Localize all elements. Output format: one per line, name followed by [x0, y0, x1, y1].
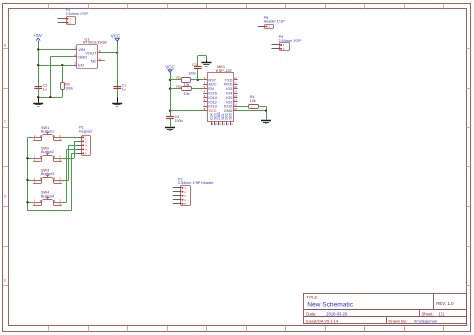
wire GND pin to rail	[238, 110, 266, 112]
junction rail/VCCpin	[169, 110, 171, 112]
svg-text:2.54mm 1*2P: 2.54mm 1*2P	[66, 12, 89, 16]
junction rail SW4	[26, 201, 28, 203]
capacitor C3 100n	[188, 56, 206, 80]
svg-text:Drawn By:: Drawn By:	[389, 318, 407, 323]
title block Date row	[306, 311, 445, 316]
svg-text:1.0: 1.0	[448, 301, 455, 306]
svg-text:timstegeman: timstegeman	[414, 318, 437, 323]
svg-text:E: E	[4, 279, 6, 283]
switch SW4 Button4	[33, 191, 62, 206]
svg-text:100n: 100n	[175, 119, 183, 123]
MK1 pin 12 SD1	[221, 113, 226, 126]
MK1 pin 18 IO0	[226, 94, 237, 100]
resistor R4 10k	[238, 95, 259, 109]
svg-text:1/1: 1/1	[439, 311, 445, 316]
junction RST/C3	[197, 79, 199, 81]
svg-text:Sheet:: Sheet:	[422, 311, 434, 316]
svg-text:Header 1*1P: Header 1*1P	[264, 20, 286, 24]
MK1 pin 22 TXD	[225, 76, 238, 82]
junction rail/R1	[169, 79, 171, 81]
svg-text:Keypad: Keypad	[79, 129, 92, 133]
power flag VCC regulator	[111, 33, 121, 43]
title block frame	[303, 294, 466, 324]
svg-text:REV:: REV:	[436, 301, 446, 306]
U1 pin 5 VOUT	[85, 49, 101, 55]
svg-text:TITLE:: TITLE:	[306, 295, 318, 300]
MK1 pin 14 SD3	[229, 113, 234, 126]
wire R2 to EN	[191, 88, 203, 90]
svg-text:NC: NC	[91, 58, 97, 63]
wire SW2 to P1 pin2	[62, 142, 78, 159]
resistor R3 100k	[61, 82, 74, 90]
border tick marks right	[466, 49, 471, 286]
svg-text:2018-03-26: 2018-03-26	[326, 311, 348, 316]
svg-text:Date:: Date:	[306, 311, 316, 316]
U1 pin 3 EN	[74, 61, 84, 67]
junction +5V/EN	[37, 64, 39, 66]
svg-text:VCC: VCC	[111, 33, 121, 38]
MK1 pin 13 SD2	[225, 113, 230, 126]
switch SW3 Button3	[33, 168, 62, 183]
svg-text:EN: EN	[78, 63, 84, 68]
svg-text:ESP-12E: ESP-12E	[216, 68, 232, 73]
svg-text:VCC: VCC	[165, 65, 175, 70]
junction gnd rail	[265, 110, 267, 112]
svg-text:R1: R1	[176, 76, 181, 80]
svg-text:2.54mm 1*5P Header: 2.54mm 1*5P Header	[178, 181, 214, 185]
connector P5 Header 1*1P	[258, 16, 286, 29]
wire VIN row	[38, 49, 73, 51]
wire SW4 to P1 pin4	[62, 149, 78, 202]
wire SW3 to P1 pin3	[62, 145, 78, 180]
power flag +5V	[33, 33, 42, 43]
ground regulator output	[117, 97, 119, 103]
MK1 pin 9 CLK	[210, 112, 214, 125]
svg-text:B: B	[4, 44, 6, 48]
svg-text:C3: C3	[192, 63, 197, 67]
MK1 pin 10 SD0	[213, 113, 218, 126]
svg-text:VIN: VIN	[78, 47, 85, 52]
wire R1 to RST	[191, 79, 203, 81]
connector P3 2.54mm 1*2P	[58, 8, 89, 25]
wire EN row	[38, 65, 73, 67]
svg-text:VCC: VCC	[208, 108, 216, 113]
connector P2 2.54mm 1*5P Header	[173, 177, 214, 205]
title block REV 1.0	[436, 301, 454, 306]
connector P4 2.54mm 1*2P	[272, 35, 302, 51]
wire VCC rail esp	[170, 74, 172, 116]
wire bottom gnd row	[38, 97, 62, 99]
svg-text:1u: 1u	[122, 88, 126, 92]
U1 pin 2 GND	[74, 53, 88, 59]
connector P1 Keypad	[78, 126, 92, 156]
MK1 pin 5 IO14	[203, 94, 217, 100]
junction rail SW3	[26, 179, 28, 181]
svg-text:RT9013-33GB: RT9013-33GB	[83, 41, 107, 45]
border tick marks left	[3, 49, 9, 286]
switch SW2 Button2	[33, 147, 62, 162]
capacitor C1 1u	[113, 84, 126, 92]
wire R4 to gnd rail	[258, 106, 266, 110]
svg-text:New Schematic: New Schematic	[307, 301, 354, 308]
wire R3 branch vertical	[62, 65, 64, 97]
junction EN/R3	[61, 64, 63, 66]
junction VOUT/VCC	[116, 52, 118, 54]
junction bottom mid	[49, 96, 51, 98]
svg-text:1u: 1u	[43, 88, 47, 92]
title block EasyEDA row	[306, 318, 437, 323]
power flag VCC esp	[165, 65, 175, 74]
wire GND row to U1	[50, 57, 73, 98]
resistor R1 10k	[170, 76, 191, 87]
MK1 pin 2 ADC	[203, 81, 217, 87]
border zone letters left	[4, 44, 7, 283]
MK1 pin 21 RXD	[224, 81, 237, 87]
op-amp U1 RT9013-33GB body	[77, 38, 108, 69]
svg-text:VOUT: VOUT	[85, 50, 97, 55]
svg-text:100k: 100k	[65, 86, 73, 90]
svg-text:GND: GND	[224, 108, 233, 113]
svg-text:SD3: SD3	[229, 113, 233, 120]
svg-text:EasyEDA V5.3.14: EasyEDA V5.3.14	[306, 318, 339, 323]
MK1 pin 17 IO2	[226, 98, 237, 104]
ground regulator input	[38, 97, 40, 103]
MK1 pin 6 IO12	[203, 98, 217, 104]
svg-text:10k: 10k	[250, 99, 256, 103]
wire VCC vertical	[117, 43, 119, 97]
junction bottom rail	[37, 96, 39, 98]
MK1 pin 8 VCC	[203, 107, 217, 113]
wire rail to VCC pin	[170, 110, 203, 112]
MK1 pin 20 IO5	[226, 85, 237, 91]
MK1 pin 11 CMD	[217, 112, 222, 126]
wire button common rail	[28, 138, 72, 211]
MK1 pin 7 IO13	[203, 103, 217, 109]
svg-text:10k: 10k	[184, 92, 190, 96]
svg-text:+5V: +5V	[33, 33, 42, 38]
MK1 pin 1 RST	[203, 76, 217, 82]
switch SW1 Button1	[33, 126, 62, 141]
border tick marks top	[49, 3, 444, 9]
ground C4	[165, 128, 175, 131]
MK1 pin 15 GND	[224, 107, 238, 113]
junction rail/R2	[169, 88, 171, 90]
svg-text:R2: R2	[176, 85, 181, 89]
module MK1 ESP-12E body	[208, 64, 234, 121]
ground C3	[206, 60, 208, 62]
U1 pin 1 VIN	[74, 46, 85, 52]
border tick marks bottom	[49, 326, 444, 332]
MK1 pin 4 IO16	[203, 89, 217, 95]
wire SW1 to P1 pin1	[62, 137, 78, 139]
junction rail SW2	[26, 157, 28, 159]
wire rail to P1 pin5	[72, 153, 78, 210]
U1 pin 4 NC	[91, 57, 105, 63]
resistor R2 10k	[170, 85, 192, 96]
wire +5V vertical rail	[38, 43, 40, 97]
capacitor C4 100n	[166, 115, 182, 127]
wire VOUT to VCC	[102, 52, 118, 54]
capacitor C2 1u	[34, 82, 47, 92]
MK1 pin 16 IO15	[224, 103, 238, 109]
MK1 pin 19 IO4	[226, 89, 237, 95]
ground esp	[266, 111, 268, 120]
MK1 pin 3 EN	[203, 85, 214, 91]
svg-text:100n: 100n	[188, 71, 196, 75]
junction +5V/VIN	[37, 48, 39, 50]
